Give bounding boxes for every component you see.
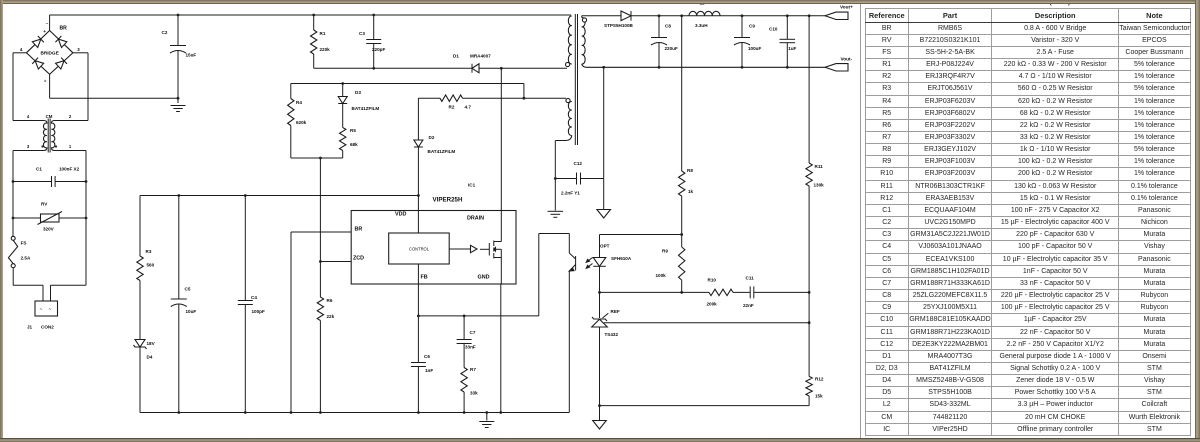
resistor R5 (340, 128, 346, 151)
capacitor C10 (786, 16, 788, 40)
node C2 top junction (177, 14, 180, 17)
svg-text:560: 560 (147, 263, 155, 268)
svg-text:R8: R8 (687, 168, 693, 173)
schematic drawing (0, 0, 860, 442)
node C2 ground junction (177, 97, 180, 100)
svg-text:33k: 33k (470, 391, 478, 396)
resistor R11 (808, 16, 810, 163)
wire CM pin1 to right column (54, 150, 86, 152)
node TS432 bottom (598, 404, 601, 407)
svg-text:C2: C2 (162, 30, 168, 35)
svg-text:J1: J1 (27, 325, 33, 330)
capacitor C3 (373, 15, 375, 40)
node R1 top junction (312, 14, 315, 17)
svg-text:22nF: 22nF (743, 303, 754, 308)
capacitor C9 (741, 16, 743, 37)
svg-text:15uF: 15uF (186, 53, 197, 58)
wire ZCD pin (320, 261, 351, 263)
svg-text:≈: ≈ (43, 80, 48, 83)
svg-text:C11: C11 (746, 276, 755, 281)
svg-text:RV: RV (41, 202, 48, 207)
svg-text:R12: R12 (815, 377, 824, 382)
wire clamp bottom link (291, 157, 343, 159)
wire secondary bottom rail (582, 64, 825, 67)
zener diode D4 (135, 340, 145, 348)
capacitor C4 (244, 196, 246, 301)
svg-text:R1: R1 (320, 31, 326, 36)
transformer secondary winding (582, 17, 585, 64)
mosfet symbol (488, 243, 490, 256)
svg-text:3.3uH: 3.3uH (695, 23, 708, 28)
svg-text:1k: 1k (688, 189, 694, 194)
svg-text:SFH610A: SFH610A (611, 256, 632, 261)
node VDD junction (417, 194, 420, 197)
svg-text:BRIDGE: BRIDGE (40, 51, 58, 56)
node C7 top (463, 315, 466, 318)
wire VDD rail (140, 195, 418, 197)
wire clamp bottom (314, 67, 472, 69)
bridge BR diamond outline (26, 31, 73, 75)
diode D1 (472, 64, 479, 73)
fuse FS (11, 236, 15, 240)
resistor R10 (709, 289, 733, 295)
svg-text:2: 2 (69, 114, 72, 119)
svg-text:OPT: OPT (600, 244, 610, 249)
wire FB column (417, 284, 419, 363)
inductor L2 (689, 11, 720, 15)
wire secondary top b (631, 15, 825, 17)
node C10 bottom (786, 66, 789, 69)
svg-text:2.5A: 2.5A (21, 256, 31, 261)
node GND column bottom (499, 411, 502, 414)
svg-text:22k: 22k (327, 314, 335, 319)
wire GND column (500, 284, 502, 413)
wire top DC+ rail (50, 14, 572, 16)
node C5 bottom (177, 411, 180, 414)
svg-text:BAT41ZFILM: BAT41ZFILM (352, 106, 380, 111)
resistor R12 (808, 292, 810, 376)
wire VDD internal (417, 211, 419, 234)
transformer T1 primary winding (568, 16, 571, 64)
transformer core (574, 14, 576, 145)
node C8 bottom (658, 66, 661, 69)
node BR column bottom (290, 411, 293, 414)
resistor R9 (681, 235, 683, 248)
mosfet Q drain line (500, 68, 502, 241)
svg-text:BAT41ZFILM: BAT41ZFILM (428, 149, 456, 154)
node R7 bottom (463, 411, 466, 414)
node R9 bottom junction (680, 291, 683, 294)
svg-text:100k: 100k (656, 273, 667, 278)
wire TS432 anode (599, 327, 601, 406)
choke CM phase dot right (55, 145, 57, 147)
node R8 top (680, 14, 683, 17)
svg-text:C10: C10 (769, 27, 778, 32)
capacitor C6 (411, 362, 426, 364)
diode D2 (417, 98, 419, 140)
svg-text:620k: 620k (296, 120, 307, 125)
svg-text:REF: REF (611, 309, 620, 314)
wire bridge pin4 to left column (13, 52, 26, 54)
svg-text:D1: D1 (453, 54, 459, 59)
svg-text:C7: C7 (470, 330, 476, 335)
svg-text:200k: 200k (707, 302, 718, 307)
gate drive arrow (449, 248, 470, 250)
opto light arrows (586, 258, 592, 269)
node R6 bottom (319, 411, 322, 414)
svg-text:10uF: 10uF (186, 309, 197, 314)
svg-text:C9: C9 (749, 24, 755, 29)
svg-text:–: – (46, 21, 49, 26)
svg-text:1uF: 1uF (788, 46, 796, 51)
svg-text:VDD: VDD (395, 212, 406, 218)
svg-text:18V: 18V (147, 341, 156, 346)
svg-text:4.7: 4.7 (465, 105, 472, 110)
svg-text:C3: C3 (359, 31, 365, 36)
svg-text:C12: C12 (574, 161, 583, 166)
wire left column to J1 (13, 284, 43, 286)
ground symbol primary (486, 413, 488, 421)
wire R12 bottom link (600, 405, 810, 407)
node C10 top (786, 14, 789, 17)
svg-text:CON2: CON2 (41, 325, 54, 330)
svg-text:~: ~ (49, 307, 52, 312)
wire opto top link (600, 234, 682, 236)
capacitor C5 (178, 196, 180, 299)
node ZCD junction (319, 260, 322, 263)
node FB junction (417, 315, 420, 318)
svg-text:2.2nF Y1: 2.2nF Y1 (561, 191, 580, 196)
svg-text:BR: BR (355, 227, 363, 233)
node C6 bottom (417, 411, 420, 414)
node C3 top junction (372, 14, 375, 17)
bridge diode lower-left (32, 58, 44, 70)
wire comp left (600, 291, 710, 293)
svg-text:Vout+: Vout+ (840, 4, 853, 9)
node C3 bottom (372, 67, 375, 70)
wire bridge minus down (49, 74, 51, 98)
wire right column to J1 (51, 284, 87, 286)
svg-text:220k: 220k (320, 47, 331, 52)
shunt reference TS432 (592, 317, 607, 321)
wire secondary gnd branch (603, 67, 605, 209)
svg-text:DRAIN: DRAIN (467, 216, 484, 222)
svg-text:ZCD: ZCD (353, 256, 364, 262)
svg-text:3: 3 (27, 144, 30, 149)
svg-text:C4: C4 (251, 295, 257, 300)
ground secondary 2 (599, 406, 601, 421)
svg-text:CONTROL: CONTROL (409, 247, 430, 252)
svg-text:Vout-: Vout- (841, 56, 853, 61)
svg-text:R6: R6 (327, 298, 333, 303)
ground secondary 1 (597, 210, 611, 219)
svg-text:R4: R4 (296, 100, 302, 105)
svg-text:15k: 15k (815, 394, 823, 399)
svg-text:TS432: TS432 (605, 332, 619, 337)
node C12 left (554, 177, 557, 180)
svg-text:STPS5H100B: STPS5H100B (604, 23, 634, 28)
diode D3 (342, 84, 344, 97)
svg-text:D4: D4 (147, 355, 153, 360)
svg-text:+: + (43, 30, 46, 35)
node C5 top (177, 194, 180, 197)
wire bridge top to rail (49, 15, 51, 31)
capacitor C12 (555, 178, 576, 180)
node C9 top (741, 14, 744, 17)
ground aux winding (548, 210, 564, 212)
wire mosfet source to GND pin (500, 249, 502, 257)
svg-text:VIPER25H: VIPER25H (433, 197, 463, 204)
wire primary ground rail (140, 412, 569, 414)
bridge diode lower-right (55, 58, 67, 70)
resistor R2 (418, 97, 440, 99)
capacitor C2 (177, 15, 179, 45)
node R11 top (808, 14, 811, 17)
capacitor C8 (658, 16, 660, 37)
node REF junction (808, 321, 811, 324)
wire BR pin (291, 231, 351, 233)
BOM table caption (clipped at top edge) (858, 0, 1184, 7)
connector J1 CON2 (35, 301, 58, 316)
node ground stem (485, 411, 488, 414)
transformer primary phase dot (566, 62, 570, 66)
capacitor C11 (733, 291, 750, 293)
svg-text:1: 1 (69, 144, 72, 149)
wire CM pin3 to left column (13, 150, 44, 152)
wire ZCD column (319, 158, 321, 297)
transformer secondary phase dot (582, 18, 586, 22)
svg-text:GND: GND (478, 275, 490, 281)
node R9 junction (680, 233, 683, 236)
node C4 top (244, 194, 247, 197)
svg-text:1nF: 1nF (425, 368, 433, 373)
svg-text:~: ~ (40, 307, 43, 312)
svg-text:R3: R3 (146, 249, 152, 254)
svg-text:L2: L2 (700, 0, 706, 5)
node opto TS432 junction (598, 291, 601, 294)
svg-text:D2: D2 (429, 135, 435, 140)
resistor R3 (139, 196, 141, 257)
node RV left (12, 217, 15, 220)
node C8 top (658, 14, 661, 17)
capacitor C7 (463, 316, 465, 340)
choke CM left winding (43, 121, 46, 151)
svg-text:MRA4007: MRA4007 (470, 54, 491, 59)
capacitor C1 (13, 181, 52, 183)
svg-text:D3: D3 (355, 90, 361, 95)
svg-text:CM: CM (46, 114, 53, 119)
node drain junction (500, 67, 503, 70)
wire clamp rail (291, 83, 524, 85)
ground under C2 (171, 105, 186, 107)
svg-text:R2: R2 (449, 105, 455, 110)
node R2 aux junction (523, 97, 526, 100)
wire bridge pin3 to right column (73, 52, 88, 54)
svg-text:3: 3 (77, 47, 80, 52)
node D3 top (341, 82, 344, 85)
svg-text:100uF: 100uF (748, 46, 761, 51)
opto phototransistor (568, 234, 570, 254)
node comp junction (808, 291, 811, 294)
transformer aux winding (568, 101, 571, 135)
terminal Vout+ (825, 12, 848, 19)
svg-text:BR: BR (60, 26, 68, 32)
varistor RV (13, 217, 41, 219)
resistor R7 (461, 368, 467, 393)
svg-text:C8: C8 (665, 24, 671, 29)
wire FB to opto (418, 315, 538, 317)
svg-text:220uF: 220uF (665, 46, 678, 51)
node C1 right (85, 180, 88, 183)
BOM table (865, 8, 1191, 436)
diode D5 (621, 11, 631, 21)
svg-text:R5: R5 (350, 128, 356, 133)
wire aux winding feed (524, 97, 566, 99)
svg-text:R7: R7 (470, 367, 476, 372)
svg-text:FS: FS (21, 241, 27, 246)
node sec gnd junction (602, 66, 605, 69)
wire aux feed corner (523, 84, 525, 99)
wire TS432 cathode (599, 292, 601, 318)
node C1 left (12, 180, 15, 183)
terminal Vout- (825, 64, 848, 71)
wire aux bottom (555, 136, 572, 141)
node C4 bottom (244, 411, 247, 414)
node ZCD column top (319, 157, 322, 160)
svg-text:C5: C5 (185, 287, 191, 292)
choke CM right winding (51, 121, 54, 151)
svg-text:68k: 68k (350, 142, 358, 147)
outer tan frame (0, 0, 1200, 3)
bridge diode upper-left (32, 36, 44, 48)
svg-text:C6: C6 (424, 354, 430, 359)
svg-text:130k: 130k (814, 183, 825, 188)
wire secondary top a (581, 16, 583, 18)
svg-text:320V: 320V (43, 227, 55, 232)
svg-text:220pF: 220pF (372, 47, 385, 52)
optocoupler LED (593, 258, 606, 267)
svg-text:4: 4 (20, 47, 23, 52)
wire FB internal (417, 264, 419, 284)
svg-text:IC1: IC1 (468, 183, 476, 188)
node C9 bottom (741, 66, 744, 69)
svg-text:FB: FB (421, 275, 428, 281)
svg-text:C1: C1 (36, 167, 42, 172)
wire REF line (604, 322, 809, 324)
bridge diode upper-right (55, 36, 67, 48)
transformer aux phase dot (566, 98, 570, 102)
resistor R4 (290, 84, 292, 99)
node RV right (85, 217, 88, 220)
choke CM phase dot left (41, 145, 43, 147)
svg-text:R9: R9 (662, 249, 668, 254)
resistor R8 (681, 16, 683, 171)
resistor R6 (317, 297, 323, 321)
svg-text:R11: R11 (815, 164, 824, 169)
divider between schematic and table panels (860, 3, 861, 438)
control block (389, 233, 450, 264)
svg-text:100pF: 100pF (252, 309, 265, 314)
svg-text:33nF: 33nF (465, 345, 476, 350)
choke CM core (47, 119, 49, 153)
resistor R1 (313, 15, 315, 30)
IC U1 VIPER25H box (351, 211, 516, 285)
svg-text:R10: R10 (708, 278, 717, 283)
svg-text:4: 4 (27, 114, 30, 119)
svg-text:100nF X2: 100nF X2 (59, 167, 80, 172)
